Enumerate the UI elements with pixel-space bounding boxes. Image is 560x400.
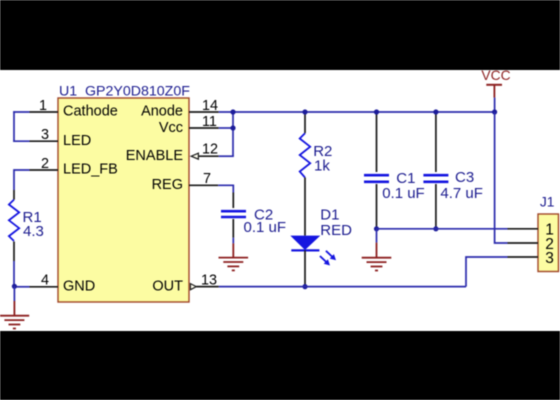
svg-text:ENABLE: ENABLE bbox=[126, 148, 184, 164]
LED D1 emission arrow 1 bbox=[326, 251, 336, 260]
LED D1 cathode bar bbox=[291, 249, 319, 251]
IC U1 body (GP2Y0D810Z0F) bbox=[58, 98, 189, 302]
C2 top stub bbox=[232, 193, 234, 209]
wire R1 to gnd node bbox=[13, 261, 15, 287]
pin 14 stub bbox=[189, 111, 219, 113]
C3 top stub bbox=[435, 112, 437, 172]
wire pin2 corner to R1 bbox=[14, 170, 30, 190]
wire vertical pins 14-11-12 bbox=[232, 112, 234, 156]
svg-text:U1 GP2Y0D810Z0F: U1 GP2Y0D810Z0F bbox=[59, 84, 190, 100]
junction node anode rail bbox=[230, 109, 235, 114]
junction node C1 rail bbox=[374, 109, 379, 114]
C1 top stub bbox=[376, 112, 378, 172]
pin 1 stub bbox=[30, 111, 59, 113]
svg-text:12: 12 bbox=[202, 142, 218, 158]
svg-text:VCC: VCC bbox=[481, 68, 510, 83]
R1 top stub bbox=[13, 190, 15, 200]
wire gnd stem blue bbox=[13, 286, 15, 301]
svg-text:LED: LED bbox=[63, 133, 91, 149]
connector J1 body bbox=[538, 214, 559, 272]
svg-text:LED_FB: LED_FB bbox=[63, 162, 118, 178]
junction node vcc pin bbox=[230, 125, 235, 130]
wire gnd rail (C1-C3-J1 pin1) bbox=[377, 228, 508, 230]
svg-text:4.7 uF: 4.7 uF bbox=[440, 185, 483, 202]
LED D1 emission arrow 2 bbox=[320, 256, 330, 266]
pin 11 stub bbox=[189, 127, 219, 129]
svg-text:0.1 uF: 0.1 uF bbox=[244, 219, 287, 236]
pin 7 stub bbox=[189, 184, 218, 186]
ground (under C1) bbox=[362, 243, 392, 271]
junction node C3 gnd rail bbox=[433, 226, 438, 231]
pin 13 output triangle bbox=[190, 284, 196, 290]
wire pin12 to vertical bbox=[219, 155, 234, 157]
capacitor C2 bbox=[221, 211, 246, 217]
C2 bottom stub bbox=[232, 219, 234, 238]
pin 4 stub bbox=[30, 286, 59, 288]
junction node C3 rail bbox=[433, 109, 438, 114]
junction node OUT bbox=[302, 284, 307, 289]
resistor R2 bbox=[300, 133, 311, 177]
junction node VCC rail bbox=[492, 109, 497, 114]
R1 bottom stub bbox=[13, 242, 15, 262]
pin 13 stub bbox=[196, 286, 218, 288]
capacitor C1 bbox=[364, 175, 389, 182]
svg-text:3: 3 bbox=[545, 250, 554, 267]
R2 top stub bbox=[304, 112, 306, 133]
svg-text:0.1 uF: 0.1 uF bbox=[382, 185, 425, 202]
wire VCC top rail bbox=[219, 111, 495, 113]
svg-text:Cathode: Cathode bbox=[63, 104, 118, 120]
wire OUT up to J1 pin3 bbox=[466, 257, 508, 287]
junction node C1 gnd rail bbox=[374, 226, 379, 231]
junction node left gnd bbox=[12, 284, 17, 289]
svg-text:J1: J1 bbox=[540, 195, 555, 210]
pin 2 stub bbox=[30, 169, 59, 171]
wire pin1 to bracket bbox=[13, 111, 29, 113]
LED D1 triangle bbox=[290, 236, 320, 250]
pin 12 stub bbox=[198, 155, 218, 157]
wire VCC stem to rail bbox=[494, 98, 496, 112]
svg-text:RED: RED bbox=[320, 222, 352, 239]
J1 pin 1 stub bbox=[508, 228, 539, 230]
svg-text:4.3: 4.3 bbox=[23, 223, 44, 240]
pin 3 stub bbox=[30, 140, 59, 142]
capacitor C3 bbox=[423, 175, 448, 182]
wire VCC rail down to J1 pin2 bbox=[495, 112, 508, 243]
ground (left, power GND) bbox=[0, 301, 29, 329]
svg-text:Anode: Anode bbox=[141, 104, 183, 120]
bottom letterbox bar bbox=[0, 331, 560, 400]
ground (under C2) bbox=[219, 243, 249, 270]
wire pin11 to vertical bbox=[219, 127, 233, 129]
J1 pin 2 stub bbox=[508, 242, 539, 244]
C1 bottom stub bbox=[376, 184, 378, 229]
svg-text:1k: 1k bbox=[314, 158, 330, 175]
wire pin3 to bracket bbox=[13, 140, 29, 142]
svg-text:OUT: OUT bbox=[152, 279, 183, 295]
VCC symbol T-bar bbox=[486, 84, 502, 86]
junction node R2 rail bbox=[302, 109, 307, 114]
wire R2 to D1 bbox=[304, 178, 306, 236]
wire D1 to OUT rail bbox=[304, 250, 306, 286]
svg-text:GND: GND bbox=[63, 279, 95, 295]
wire pin7 to C2 bbox=[218, 185, 233, 192]
J1 pin 3 stub bbox=[508, 256, 539, 258]
svg-text:Vcc: Vcc bbox=[159, 120, 183, 136]
VCC symbol stem bbox=[493, 85, 495, 98]
pin 12 input triangle bbox=[191, 153, 198, 159]
svg-text:D1: D1 bbox=[320, 207, 339, 224]
wire pin4 to gnd node bbox=[14, 286, 30, 288]
wire C1 gnd stem bbox=[376, 229, 378, 243]
wire bracket vertical (cathode-LED) bbox=[13, 111, 15, 142]
resistor R1 bbox=[9, 200, 19, 241]
wire OUT run bbox=[219, 286, 466, 288]
top letterbox bar bbox=[0, 0, 560, 70]
wire C2 to ground bbox=[232, 238, 234, 244]
svg-text:C3: C3 bbox=[455, 169, 474, 186]
C3 bottom stub bbox=[435, 184, 437, 229]
svg-text:REG: REG bbox=[152, 177, 183, 193]
